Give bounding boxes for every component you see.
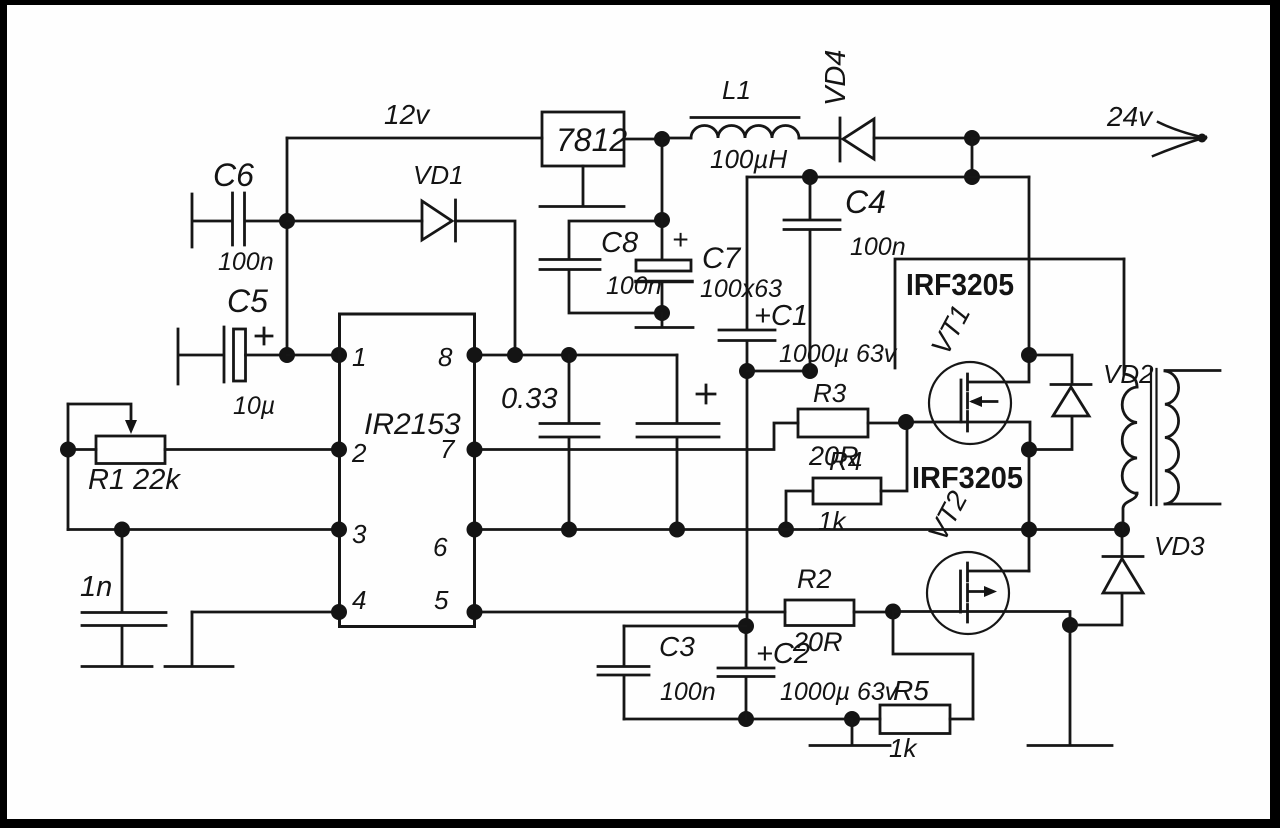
svg-text:+C1: +C1 [754,300,808,332]
svg-text:0.33: 0.33 [501,383,557,415]
svg-text:1000µ 63v: 1000µ 63v [780,678,899,706]
ground output half-bridge [1028,625,1112,746]
capacitor C1 [719,330,775,341]
svg-text:10µ: 10µ [233,392,275,420]
svg-text:R4: R4 [829,446,862,476]
node 0.33 bottom [561,522,577,538]
capacitor C7 electrolytic [636,139,692,313]
wire 12v rail horizontal [287,137,542,140]
svg-text:1n: 1n [80,571,112,603]
svg-text:R5: R5 [893,675,929,706]
node pin2 [331,442,347,458]
resistor R3 [798,409,868,437]
diode VD2 [1029,355,1091,450]
wire bottom rail C3-C2-R5 [624,718,852,721]
svg-text:6: 6 [433,532,448,562]
wire 12v vertical drop [286,138,289,355]
node VD3 bottom rail [1114,522,1130,538]
svg-text:12v: 12v [384,99,431,130]
diode VD1 [422,200,456,241]
wire half-bridge vertical [1028,450,1031,572]
svg-text:VD1: VD1 [413,160,464,190]
wire second rail right drop to VT1 drain [1028,177,1031,355]
wire VD4 to 24v junction [874,137,972,140]
wire 24v arrow head [1153,122,1206,156]
node second rail junction [964,169,980,185]
node C4 top junction [802,169,818,185]
transformer T1 core [1151,369,1157,505]
diode VD3 [1070,530,1143,626]
transistor Q1 VT1 mosfet [906,355,1030,450]
node R4 bottom [778,522,794,538]
svg-text:100x63: 100x63 [700,275,782,303]
wire pin4 [192,611,339,614]
svg-text:1: 1 [352,342,366,372]
svg-text:R3: R3 [813,378,847,408]
svg-text:+: + [672,224,688,255]
svg-text:R2: R2 [797,564,832,594]
svg-text:100n: 100n [850,233,906,261]
transformer T1 secondary [1165,371,1220,505]
node half-bridge mid [1021,522,1037,538]
node C7 bottom junction [654,305,670,321]
svg-text:VD4: VD4 [820,50,852,106]
node bootstrap bottom [669,522,685,538]
wire VT2 gate to R5 [893,612,973,720]
potentiometer R1 [68,404,339,530]
capacitor 0.33 [540,355,599,530]
node 0.33 top [561,347,577,363]
wire to pin 1 [287,354,339,357]
node 24v junction top [964,130,980,146]
ground R5 [810,719,890,746]
wire pin6 rail [475,528,1123,531]
svg-text:C4: C4 [845,184,886,220]
node VT1 drain [1021,347,1037,363]
node 7812 output junction [654,131,670,147]
node 1n top [114,522,130,538]
node pin6 [467,522,483,538]
capacitor C3 [598,626,746,719]
node pin4 [331,604,347,620]
svg-text:C5: C5 [227,283,268,319]
resistor R2 [785,600,893,626]
ground C7 [636,313,693,328]
svg-text:+C2: +C2 [756,638,810,670]
wire pin8 rail [475,354,678,357]
wire IRF3205 frame rail [895,259,1124,368]
capacitor C6 [192,193,287,247]
capacitor C5 [178,327,287,384]
capacitor C4 [784,177,840,371]
transformer T1 primary [1122,259,1137,530]
node C7 top junction [654,212,670,228]
svg-text:1k: 1k [818,506,847,536]
svg-text:4: 4 [352,585,366,615]
svg-text:24v: 24v [1106,101,1154,132]
svg-text:C7: C7 [702,242,742,275]
node pin1 [331,347,347,363]
wire R3 to VT1 gate [868,422,906,425]
inductor L1 [662,118,840,139]
wire VD1 cathode to pin8 drop [456,221,516,355]
svg-text:7: 7 [440,434,456,464]
wire pin3 rail [68,528,339,531]
wire 24v output [972,137,1205,140]
node VD1 drop on pin8 rail [507,347,523,363]
node C5 junction [279,347,295,363]
capacitor C2 [718,626,774,719]
svg-text:100n: 100n [660,678,716,706]
IC U1 IR2153 box [340,314,475,627]
resistor R4 [786,423,907,530]
node pin8 [467,347,483,363]
resistor R5 [852,705,973,734]
svg-text:C8: C8 [601,227,638,259]
node C6-12v junction [279,213,295,229]
svg-text:C6: C6 [213,157,254,193]
svg-text:VD2: VD2 [1103,359,1154,389]
svg-text:7812: 7812 [556,122,627,158]
svg-text:2: 2 [351,438,367,468]
svg-text:1000µ 63v: 1000µ 63v [779,340,898,368]
svg-text:5: 5 [434,585,449,615]
node pin5 [467,604,483,620]
transistor Q2 VT2 mosfet [893,552,1070,634]
svg-text:3: 3 [352,519,367,549]
diode VD4 [840,118,874,161]
wire pin5 rail [475,611,786,614]
wire C6 to VD1 [287,220,422,223]
ground 1n [82,665,152,668]
svg-text:IRF3205: IRF3205 [912,460,1023,495]
wire pin7 rail [475,423,799,450]
node VT2 source [1062,617,1078,633]
svg-text:L1: L1 [722,75,751,105]
node VT1 gate [898,414,914,430]
wire second rail horizontal [747,176,1029,179]
node C1-C4 link left [739,363,755,379]
wire C1-C4 link [747,370,810,373]
svg-text:100µH: 100µH [710,144,787,174]
capacitor bootstrap plus [637,355,719,530]
ground 7812 [540,166,624,207]
capacitor C8 [540,221,662,313]
wire junction drop to second rail [971,138,974,177]
capacitor C1 branch vertical top [746,177,749,329]
node pin7 [467,442,483,458]
svg-text:100n: 100n [606,272,662,300]
capacitor 1n [82,530,166,666]
node R5 left [844,711,860,727]
node C1-C4 link right [802,363,818,379]
node VT2 gate [885,604,901,620]
node C2 bottom [738,711,754,727]
node 24v arrow tip [1198,134,1207,143]
ground pin4 [165,612,233,667]
node C2 top [738,618,754,634]
svg-text:IRF3205: IRF3205 [906,267,1014,302]
node pin3 [331,522,347,538]
svg-text:8: 8 [438,342,453,372]
node VT1 source [1021,442,1037,458]
svg-text:C3: C3 [659,631,695,662]
wire 7812 output [624,138,662,141]
regulator U2 7812 box [542,112,624,166]
svg-text:100n: 100n [218,248,274,276]
svg-text:R1 22k: R1 22k [88,464,181,496]
svg-text:1k: 1k [889,733,918,763]
wire C1 bottom long vertical [746,342,749,627]
node R1 left [60,442,76,458]
svg-text:VD3: VD3 [1154,531,1205,561]
